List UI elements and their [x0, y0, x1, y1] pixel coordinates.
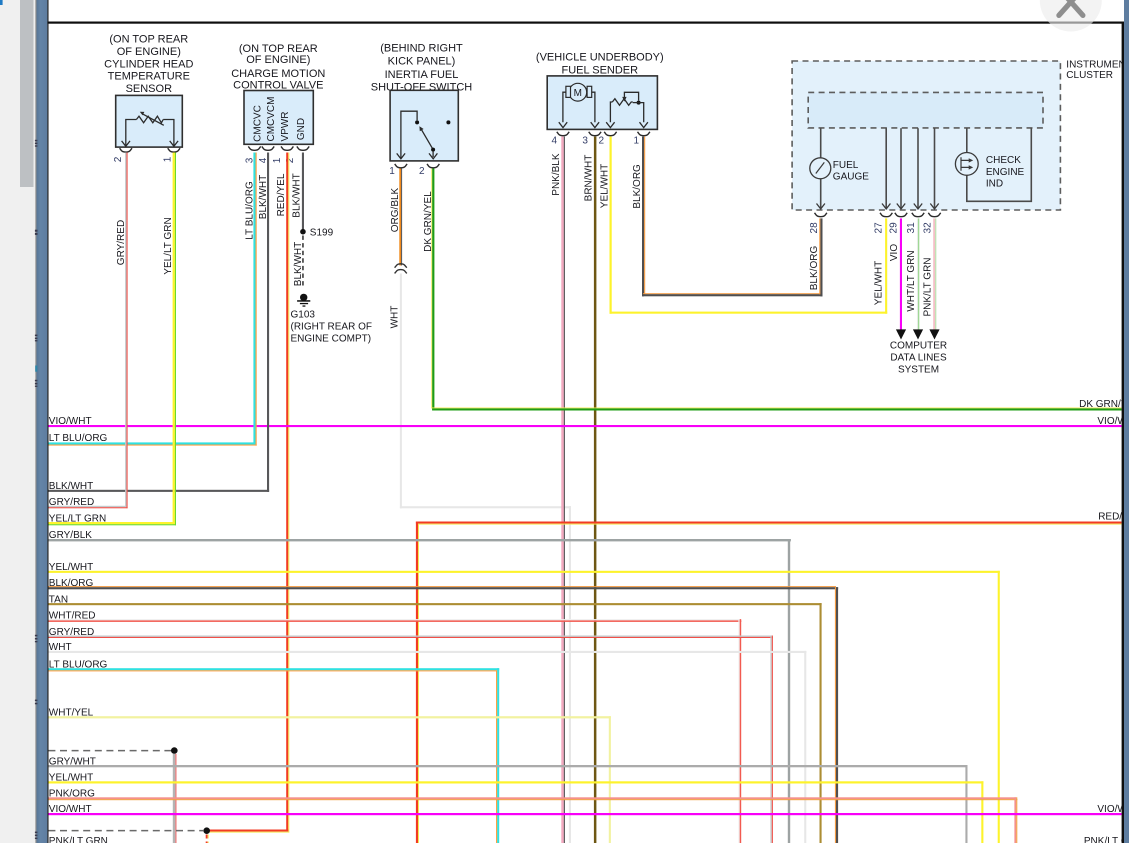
arrow to computer data lines [929, 329, 939, 339]
svg-text:WHT: WHT [390, 306, 401, 329]
arrow to computer data lines [896, 329, 906, 339]
svg-text:YEL/WHT: YEL/WHT [49, 773, 93, 784]
pin 2 connector arc [120, 148, 132, 152]
motor brush left [566, 86, 571, 97]
switch contact node [415, 120, 419, 124]
rheostat wiper arm [624, 92, 638, 100]
sender pin 1 connector arc [638, 132, 650, 136]
thermistor strike arrow [143, 114, 164, 125]
svg-text:(VEHICLE UNDERBODY): (VEHICLE UNDERBODY) [536, 52, 664, 64]
wire WHT/YEL right then down at x610 [48, 716, 611, 843]
dashed RED/YEL stub below splice [206, 835, 208, 843]
sender pin 4 connector arc [557, 132, 569, 136]
svg-text:2: 2 [599, 135, 605, 146]
cluster internal wire pin 31 [917, 128, 919, 208]
wire RED/YEL CMCV pin1 down to splice S-dot [207, 153, 290, 833]
svg-text:DATA LINES: DATA LINES [890, 352, 947, 363]
wire YEL/WHT right then down at x999 [48, 571, 999, 843]
cluster pin 29 connector arc [895, 213, 907, 217]
svg-text:COMPUTER: COMPUTER [890, 340, 947, 351]
svg-text:CHECK: CHECK [986, 155, 1021, 166]
svg-text:BRN/WHT: BRN/WHT [583, 155, 594, 202]
svg-text:WHT/LT GRN: WHT/LT GRN [906, 250, 917, 311]
instrument cluster outer dashed box [792, 61, 1060, 210]
wire LT BLU/ORG CMCV pin3 [48, 153, 256, 446]
svg-text:(ON TOP REAR: (ON TOP REAR [109, 34, 188, 46]
svg-text:ORG/BLK: ORG/BLK [390, 187, 401, 232]
svg-text:29: 29 [889, 222, 900, 234]
svg-text:BLK/WHT: BLK/WHT [291, 173, 302, 217]
fuel sender box [547, 76, 657, 129]
panel tick marks [35, 140, 38, 839]
cylinder head temperature sensor caption [104, 34, 193, 95]
sender pin 4 arrow [559, 122, 567, 127]
svg-text:FUEL: FUEL [833, 160, 859, 171]
instrument cluster inner dashed box [808, 92, 1043, 128]
svg-text:4: 4 [552, 135, 558, 146]
ground G103 [300, 294, 307, 301]
svg-text:2: 2 [113, 156, 124, 162]
wire GRY/RED CHT pin2 [48, 153, 127, 509]
computer data lines system label [890, 340, 947, 375]
arrow to computer data lines [913, 329, 923, 339]
wire VIO/WHT full width [48, 425, 1121, 427]
inertia fuel shut-off switch box [390, 90, 458, 161]
wire YEL/WHT right then down at x983 [48, 781, 983, 843]
svg-text:GAUGE: GAUGE [833, 171, 869, 182]
sender pin 3 connector arc [589, 132, 601, 136]
wire RED/WHT from right edge down at x417 [416, 522, 1122, 843]
svg-text:G103: G103 [291, 309, 316, 320]
dashed BLK/WHT to ground [302, 236, 304, 289]
fuel pump motor M1 circle [569, 83, 587, 101]
pin 2 arrow [122, 141, 130, 146]
svg-text:1: 1 [389, 166, 395, 177]
svg-text:1: 1 [272, 157, 283, 163]
inline connector break symbol [395, 264, 407, 268]
scrollbar track [0, 0, 20, 843]
wire DK GRN/YEL inertia pin2 down then right [431, 169, 1121, 411]
wire WHT/RED right then down at x740 [48, 619, 741, 843]
CMCV pin 2 connector arc [297, 146, 309, 150]
inertia fuel shut-off switch caption [371, 43, 472, 94]
svg-text:VIO: VIO [889, 244, 900, 261]
svg-text:BLK/ORG: BLK/ORG [809, 246, 820, 291]
svg-text:BLK/WHT: BLK/WHT [49, 481, 93, 492]
wire PNK/ORG right then down at x1016 [48, 797, 1017, 843]
CMCV pin 1 connector arc [281, 146, 293, 150]
svg-text:PNK/BLK: PNK/BLK [551, 153, 562, 196]
svg-text:TEMPERATURE: TEMPERATURE [108, 71, 190, 83]
switch open contact node [446, 120, 450, 124]
svg-text:32: 32 [923, 222, 934, 234]
svg-text:LT BLU/ORG: LT BLU/ORG [49, 659, 108, 670]
svg-text:IND: IND [986, 179, 1003, 190]
sender pin 2 connector arc [604, 132, 616, 136]
wire WHT from inertia switch splice down and right [400, 274, 571, 843]
sender pin 1 arrow [640, 122, 648, 127]
inertia pin 1 arrow [397, 153, 405, 158]
svg-text:RED/YEL: RED/YEL [276, 173, 287, 216]
splice S199 [300, 229, 306, 235]
wire BLK/ORG sender pin1 to cluster pin28 [642, 137, 823, 297]
pin 1 connector arc [168, 148, 180, 152]
svg-text:KICK PANEL): KICK PANEL) [388, 56, 456, 68]
thermistor RT leads [126, 120, 174, 147]
svg-text:GND: GND [296, 118, 307, 140]
svg-text:CLUSTER: CLUSTER [1066, 70, 1113, 81]
svg-text:SYSTEM: SYSTEM [898, 364, 939, 375]
svg-text:OF ENGINE): OF ENGINE) [117, 46, 181, 58]
rheostat right lead [639, 103, 644, 123]
fuel sender caption [536, 52, 664, 77]
right edge wire labels [1079, 399, 1129, 843]
svg-text:VIO/WHT: VIO/WHT [49, 416, 92, 427]
motor lead right [592, 92, 595, 122]
wire GRY/RED right then down at x772 [48, 636, 773, 843]
svg-text:WHT: WHT [49, 642, 72, 653]
svg-text:CMCVCM: CMCVCM [266, 97, 277, 142]
svg-text:YEL/LT GRN: YEL/LT GRN [163, 217, 174, 274]
diagram top border [47, 22, 1124, 24]
blue accent top-left [0, 0, 3, 5]
svg-text:LT BLU/ORG: LT BLU/ORG [244, 181, 255, 240]
svg-text:YEL/WHT: YEL/WHT [49, 562, 93, 573]
cluster pin 32 connector arc [928, 213, 940, 217]
fuel level rheostat zigzag [612, 99, 633, 106]
wire WHT/LT GRN cluster pin31 [917, 218, 918, 330]
cylinder head temperature sensor box [116, 95, 183, 147]
svg-text:28: 28 [809, 222, 820, 234]
svg-text:31: 31 [906, 222, 917, 234]
svg-text:GRY/RED: GRY/RED [49, 497, 94, 508]
svg-text:2: 2 [419, 166, 425, 177]
svg-text:PNK/ORG: PNK/ORG [49, 788, 95, 799]
left panel bar [35, 0, 36, 843]
charge motion control valve box [244, 91, 313, 145]
sender pin 2 arrow [606, 122, 614, 127]
motor brush right [587, 86, 592, 97]
svg-text:S199: S199 [310, 228, 334, 239]
svg-text:3: 3 [582, 135, 588, 146]
wire TAN right then down at x820 [48, 603, 821, 843]
fuel gauge [810, 158, 831, 179]
splice dot [203, 827, 210, 834]
svg-text:WHT/RED: WHT/RED [49, 610, 96, 621]
cluster pin 31 connector arc [912, 213, 924, 217]
wire BLK/ORG right then down at x837 [48, 586, 838, 843]
cluster internal wire pin 32 [934, 128, 936, 208]
dashed lead to splice at y830 [48, 830, 203, 832]
cluster pin 27 connector arc [880, 213, 892, 217]
switch fixed contact wire [401, 111, 417, 158]
cluster internal wire pin 28 [820, 128, 822, 208]
charge motion control valve caption [231, 43, 325, 92]
internal arrowheads at cluster box bottom [817, 204, 939, 209]
wire LT BLU/ORG right then down at x497 [48, 668, 499, 843]
check engine loop wire [967, 128, 1032, 201]
svg-text:DK GRN/YEL: DK GRN/YEL [1079, 399, 1129, 410]
motor lead left [563, 92, 566, 122]
svg-text:VIO/WHT: VIO/WHT [49, 804, 92, 815]
cluster pin 28 connector arc [815, 213, 827, 217]
svg-text:ENGINE: ENGINE [986, 167, 1025, 178]
switch arm node [431, 148, 435, 152]
svg-text:CMCVC: CMCVC [252, 105, 263, 142]
wire GRY/RED down from splice [173, 754, 176, 843]
svg-text:(ON TOP REAR: (ON TOP REAR [239, 43, 318, 55]
svg-text:(RIGHT REAR OF: (RIGHT REAR OF [291, 321, 372, 332]
wire BLK/WHT CMCV pin4 [48, 153, 269, 492]
svg-text:VPWR: VPWR [280, 112, 291, 142]
check engine indicator lamp [955, 153, 978, 176]
svg-text:FUEL SENDER: FUEL SENDER [561, 65, 638, 77]
svg-text:DK GRN/YEL: DK GRN/YEL [423, 191, 434, 252]
inertia pin 2 arrow [429, 153, 437, 158]
svg-text:OF ENGINE): OF ENGINE) [246, 54, 310, 66]
diagram left border [47, 0, 48, 843]
switch movable arm [421, 129, 433, 149]
left edge wire labels [49, 416, 108, 843]
inertia pin 1 connector arc [395, 164, 407, 168]
wire WHT right then down at x805 [48, 651, 806, 843]
wire ORG/BLK inertia pin1 [399, 169, 401, 266]
wire VIO cluster pin29 [900, 218, 902, 330]
svg-text:27: 27 [873, 222, 884, 234]
svg-text:BLK/ORG: BLK/ORG [49, 578, 94, 589]
svg-text:BLK/WHT: BLK/WHT [258, 175, 269, 219]
svg-text:GRY/RED: GRY/RED [116, 220, 127, 265]
wire GRY/BLK right then down [48, 539, 791, 843]
svg-text:PNK/LT GRN: PNK/LT GRN [49, 836, 108, 843]
cluster internal wire pin 27 [885, 128, 887, 208]
svg-text:GRY/BLK: GRY/BLK [49, 530, 92, 541]
wire YEL/LT GRN CHT pin1 [48, 153, 176, 526]
cluster internal wire pin 29 [900, 128, 902, 208]
svg-text:M: M [574, 88, 582, 99]
svg-text:CYLINDER HEAD: CYLINDER HEAD [104, 58, 193, 70]
svg-text:SENSOR: SENSOR [126, 83, 173, 95]
svg-text:YEL/WHT: YEL/WHT [600, 164, 611, 208]
svg-text:YEL/LT GRN: YEL/LT GRN [49, 513, 106, 524]
svg-text:BLK/WHT: BLK/WHT [293, 242, 304, 286]
sender pin 3 arrow [591, 122, 599, 127]
close button [1040, 0, 1102, 32]
svg-text:WHT/YEL: WHT/YEL [49, 707, 94, 718]
svg-text:YEL/WHT: YEL/WHT [873, 261, 884, 305]
svg-text:CHARGE MOTION: CHARGE MOTION [231, 68, 325, 80]
rheostat left lead [610, 102, 612, 122]
svg-text:1: 1 [163, 156, 174, 162]
wire GRY/WHT right then down at x967 [48, 765, 967, 843]
svg-text:INERTIA FUEL: INERTIA FUEL [385, 69, 459, 81]
svg-text:(BEHIND RIGHT: (BEHIND RIGHT [380, 43, 463, 55]
svg-text:1: 1 [634, 135, 640, 146]
pin 1 arrow [170, 141, 178, 146]
svg-text:ENGINE COMPT): ENGINE COMPT) [291, 334, 372, 345]
instrument cluster label [1066, 60, 1129, 81]
svg-text:BLK/ORG: BLK/ORG [632, 164, 643, 209]
wire YEL/WHT sender pin2 to cluster pin27 [610, 137, 888, 314]
wire PNK/LT GRN cluster pin32 [933, 218, 935, 330]
wire BLK/WHT CMCV pin2 to S199 [302, 153, 304, 230]
dashed lead to splice at y750 [48, 750, 171, 752]
scrollbar thumb [20, 0, 34, 187]
rotated wire color labels [116, 153, 934, 328]
thermistor RT zigzag [136, 116, 163, 123]
splice dot [171, 747, 178, 754]
wire PNK/BLK sender pin4 [561, 137, 564, 843]
wire BRN/WHT sender pin3 [594, 137, 597, 843]
CMCV pin 4 connector arc [262, 146, 274, 150]
inertia pin 2 connector arc [427, 164, 439, 168]
svg-text:PNK/LT GRN: PNK/LT GRN [923, 257, 934, 316]
svg-text:TAN: TAN [49, 594, 68, 605]
rheostat output node [637, 101, 641, 105]
diagram right border [1122, 22, 1124, 843]
wire VIO/WHT bottom full width [48, 813, 1121, 815]
right page strip [1124, 0, 1129, 843]
svg-text:GRY/RED: GRY/RED [49, 627, 94, 638]
svg-text:GRY/WHT: GRY/WHT [49, 756, 96, 767]
svg-text:LT BLU/ORG: LT BLU/ORG [49, 433, 108, 444]
CMCV pin 3 connector arc [248, 146, 260, 150]
